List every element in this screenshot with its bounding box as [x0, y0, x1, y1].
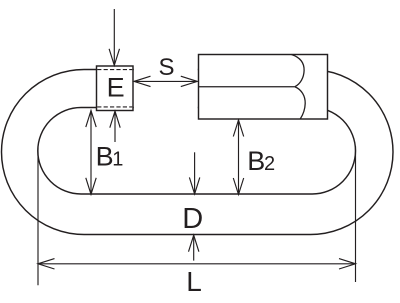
- svg-text:1: 1: [112, 148, 123, 170]
- svg-text:E: E: [107, 73, 125, 103]
- svg-text:B: B: [247, 146, 265, 176]
- svg-text:B: B: [96, 141, 114, 171]
- svg-text:S: S: [158, 54, 174, 81]
- svg-text:2: 2: [264, 153, 275, 175]
- svg-text:L: L: [186, 266, 202, 297]
- svg-text:D: D: [182, 203, 203, 235]
